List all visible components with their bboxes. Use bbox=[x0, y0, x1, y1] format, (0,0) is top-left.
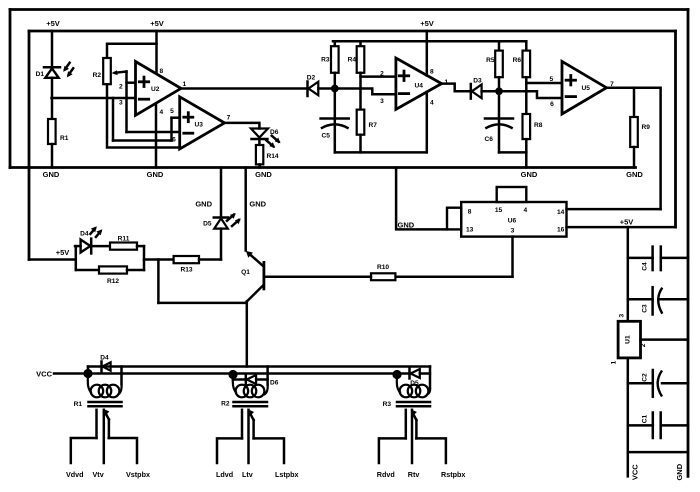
svg-text:R10: R10 bbox=[377, 264, 389, 271]
svg-text:2: 2 bbox=[640, 343, 647, 347]
wire left border down to ground rail bbox=[9, 10, 12, 168]
wire +5V bias feed bbox=[29, 258, 75, 261]
svg-text:R1: R1 bbox=[60, 135, 69, 142]
transformer R1 core bbox=[74, 401, 122, 408]
resistor R9 bbox=[630, 88, 650, 147]
wire cell rail drop to ground rail bbox=[525, 152, 528, 167]
wire cross link to U3 pin 5 riser bbox=[113, 139, 172, 142]
svg-text:4: 4 bbox=[159, 109, 163, 116]
svg-text:U3: U3 bbox=[195, 122, 204, 129]
wire R12 to right node bbox=[127, 269, 144, 272]
resistor R7 bbox=[357, 110, 378, 135]
svg-text:C4: C4 bbox=[642, 262, 649, 271]
wire R13 to D5 anode bbox=[199, 258, 221, 261]
wire ground rail drop to Q1 emitter bbox=[244, 168, 247, 251]
wire D2 anode to C5 node bbox=[318, 87, 335, 90]
svg-text:1: 1 bbox=[610, 360, 617, 364]
wire R2 bottom lead down and right under U2 bbox=[107, 84, 180, 147]
wire +5V to U4 pin 8 bbox=[426, 31, 429, 75]
wire U2 pin 4 to ground rail bbox=[155, 104, 158, 168]
junction node dot at R1 primary bbox=[83, 369, 92, 378]
svg-text:Rstpbx: Rstpbx bbox=[441, 470, 465, 479]
diode D5 flyback at R3 bbox=[397, 369, 430, 388]
junction node at D2 / R3 / C5 bbox=[331, 85, 339, 93]
svg-text:8: 8 bbox=[468, 208, 472, 215]
svg-text:Rtv: Rtv bbox=[408, 470, 420, 479]
svg-text:3: 3 bbox=[380, 98, 384, 105]
resistor R1 bbox=[48, 119, 69, 144]
transformer R3 primary coil bbox=[397, 379, 430, 398]
IC U1 bbox=[618, 321, 640, 358]
wire node to U5 pin 6 bbox=[499, 91, 562, 98]
op-amp U2 bbox=[136, 62, 182, 116]
svg-text:R5: R5 bbox=[486, 57, 495, 64]
wire +5V rail below U1 to VCC terminal bbox=[627, 358, 630, 477]
svg-text:Vstpbx: Vstpbx bbox=[126, 470, 150, 479]
svg-text:R14: R14 bbox=[267, 153, 279, 160]
resistor R14 bbox=[256, 145, 279, 164]
wire Q1 collector riser to transformer bus bbox=[246, 302, 249, 367]
transformer R3 secondary bbox=[379, 409, 446, 463]
svg-text:R1: R1 bbox=[74, 401, 83, 408]
wire inner box left edge continuing down to +5V bias feed bbox=[28, 31, 31, 260]
svg-text:6: 6 bbox=[172, 136, 176, 143]
wire R8 to cell rail bbox=[525, 139, 528, 152]
svg-text:Q1: Q1 bbox=[241, 269, 250, 276]
wire GND rail (inner box bottom edge) bbox=[10, 166, 636, 169]
wire U6 pin 16 to +5V riser bbox=[567, 226, 676, 229]
svg-text:6: 6 bbox=[550, 101, 554, 108]
svg-text:VCC: VCC bbox=[36, 370, 52, 379]
wire U2 pin 2 stub bbox=[127, 81, 136, 84]
wire D6 to R14 bbox=[258, 139, 261, 145]
wire ground rail drop to U6 left tab bbox=[396, 168, 447, 230]
svg-text:R11: R11 bbox=[118, 236, 130, 243]
capacitor C2 bbox=[628, 370, 688, 397]
svg-text:Ldvd: Ldvd bbox=[216, 470, 233, 479]
svg-text:D4: D4 bbox=[80, 231, 89, 238]
resistor R12 bbox=[99, 266, 127, 285]
svg-text:C6: C6 bbox=[485, 136, 494, 143]
svg-text:C1: C1 bbox=[642, 414, 649, 423]
wire inner box right edge / +5V riser to U6 pin 16 bbox=[674, 31, 677, 227]
resistor R3 bbox=[321, 41, 339, 73]
wire R3 to node bbox=[334, 73, 337, 89]
wire node to U2 pin 3 bbox=[52, 97, 136, 100]
wire divider tap to U5 pin 5 bbox=[526, 82, 562, 85]
wire +5V top rail of inner box bbox=[29, 30, 676, 33]
svg-text:GND: GND bbox=[195, 200, 212, 209]
svg-text:D3: D3 bbox=[473, 78, 482, 85]
svg-text:GND: GND bbox=[675, 463, 684, 480]
op-amp U3 bbox=[180, 97, 225, 149]
svg-text:R3: R3 bbox=[321, 57, 330, 64]
transformer R1 primary coil bbox=[88, 377, 122, 398]
svg-text:4: 4 bbox=[523, 207, 527, 214]
wire R7 to cell bottom rail bbox=[359, 135, 362, 153]
wire R2 primary right terminal bbox=[266, 367, 269, 385]
wire U3 output to D6 bbox=[225, 123, 260, 129]
svg-text:U6: U6 bbox=[508, 218, 517, 225]
capacitor C4 bbox=[628, 247, 688, 271]
wire collector bus bbox=[88, 365, 430, 368]
wire D5 anode down to R13 wire bbox=[220, 229, 223, 260]
svg-text:GND: GND bbox=[626, 170, 643, 179]
wire wiper vertical to U3 pin6 row bbox=[125, 72, 128, 133]
IC U6 bbox=[447, 187, 567, 237]
svg-text:R8: R8 bbox=[534, 122, 543, 129]
wire top border net bbox=[10, 8, 688, 11]
svg-text:U2: U2 bbox=[151, 86, 160, 93]
wire R6 to R8 divider bbox=[525, 77, 528, 114]
capacitor C5 bbox=[321, 89, 349, 153]
svg-text:8: 8 bbox=[159, 68, 163, 75]
wire U4 output to D3 bbox=[442, 84, 470, 92]
svg-text:C5: C5 bbox=[322, 133, 331, 140]
svg-text:R4: R4 bbox=[348, 57, 357, 64]
svg-text:R7: R7 bbox=[369, 122, 378, 129]
wire R9 to ground rail bbox=[633, 147, 636, 168]
diode D3 bbox=[471, 78, 482, 99]
svg-text:D1: D1 bbox=[36, 71, 45, 78]
junction node at D3 / R5 / C6 bbox=[495, 87, 503, 95]
wire +5V feed to D1 bbox=[51, 31, 54, 67]
wire U5 cell bottom rail bbox=[499, 151, 526, 154]
resistor R11 bbox=[110, 236, 137, 250]
wire right border / GND rail of cap bank bbox=[687, 10, 690, 477]
transistor Q1 bbox=[241, 251, 264, 302]
wire R14 to ground rail bbox=[258, 164, 261, 167]
svg-text:D5: D5 bbox=[203, 221, 212, 228]
svg-text:+5V: +5V bbox=[420, 19, 434, 28]
svg-text:R2: R2 bbox=[93, 72, 102, 79]
wire ground rail drop to D5 cathode bbox=[220, 168, 223, 218]
svg-text:U4: U4 bbox=[415, 83, 424, 90]
wire node to U4 pin 3 bbox=[335, 89, 396, 95]
resistor R5 bbox=[486, 41, 503, 77]
svg-text:GND: GND bbox=[521, 170, 538, 179]
svg-text:GND: GND bbox=[398, 221, 415, 230]
transformer R1 secondary bbox=[71, 409, 137, 463]
wire bottom link of cap bank bbox=[628, 451, 688, 454]
svg-text:13: 13 bbox=[466, 226, 474, 233]
svg-text:2: 2 bbox=[119, 83, 123, 90]
junction node dot at R3 primary bbox=[392, 370, 401, 379]
resistor R6 bbox=[513, 41, 531, 77]
svg-text:R9: R9 bbox=[642, 124, 651, 131]
capacitor C1 bbox=[628, 413, 688, 439]
wire U1 pin 2 to GND rail bbox=[641, 338, 689, 341]
svg-text:8: 8 bbox=[430, 69, 434, 76]
svg-text:5: 5 bbox=[170, 108, 174, 115]
svg-text:2: 2 bbox=[380, 70, 384, 77]
capacitor C6 bbox=[485, 91, 514, 152]
svg-text:R13: R13 bbox=[180, 267, 192, 274]
wire pin2 node to U3 pin 6 bbox=[127, 131, 180, 134]
svg-text:Lstpbx: Lstpbx bbox=[275, 470, 299, 479]
svg-text:7: 7 bbox=[227, 115, 231, 122]
svg-text:15: 15 bbox=[495, 207, 503, 214]
svg-text:4: 4 bbox=[430, 99, 434, 106]
resistor R8 bbox=[523, 114, 543, 139]
resistor R13 bbox=[174, 256, 199, 274]
diode D2 bbox=[307, 75, 319, 97]
wire left node of D4/R12 block bbox=[75, 246, 78, 270]
svg-text:Ltv: Ltv bbox=[242, 470, 253, 479]
svg-text:U1: U1 bbox=[624, 335, 631, 344]
transformer R3 core bbox=[383, 401, 430, 408]
svg-text:+5V: +5V bbox=[56, 248, 70, 257]
wire +5V rail of U4/U5 cells bbox=[333, 40, 526, 43]
wire VCC bus bbox=[54, 372, 397, 375]
wire R1 to ground rail bbox=[51, 144, 54, 168]
transformer R2 primary coil bbox=[233, 378, 268, 398]
wire U4 pin 4 to cell bottom rail bbox=[426, 92, 429, 152]
wire U5 output to U6 pin 14 riser bbox=[607, 88, 661, 209]
svg-text:C3: C3 bbox=[642, 304, 649, 313]
wire +5V rail down through cap bank bbox=[627, 227, 630, 321]
resistor R4 bbox=[348, 41, 365, 73]
wire D1 cathode to R1 / pin3 node bbox=[51, 78, 54, 119]
wire block to R13 bbox=[144, 258, 174, 261]
wire R1 primary right terminal bbox=[120, 367, 123, 385]
svg-text:GND: GND bbox=[43, 170, 60, 179]
capacitor C3 bbox=[628, 287, 688, 314]
wire collector loop horizontal bbox=[158, 302, 246, 305]
wire D4 to R11 bbox=[91, 245, 110, 248]
LED D6 bbox=[251, 129, 281, 149]
svg-text:GND: GND bbox=[147, 170, 164, 179]
op-amp U5 bbox=[562, 61, 607, 114]
svg-text:GND: GND bbox=[255, 170, 272, 179]
wire junction drop toward Q1 collector loop bbox=[157, 260, 160, 303]
svg-text:5: 5 bbox=[549, 76, 553, 83]
svg-text:3: 3 bbox=[511, 227, 515, 234]
photodiode D1 bbox=[36, 63, 74, 78]
svg-text:1: 1 bbox=[182, 81, 186, 88]
svg-text:R12: R12 bbox=[107, 278, 119, 285]
transformer R2 core bbox=[221, 401, 267, 408]
svg-text:Vdvd: Vdvd bbox=[66, 470, 84, 479]
svg-text:+5V: +5V bbox=[620, 218, 634, 227]
svg-text:R3: R3 bbox=[383, 401, 392, 408]
svg-text:GND: GND bbox=[249, 200, 266, 209]
op-amp U4 bbox=[396, 58, 442, 109]
wire Q1 base to R10 bbox=[264, 276, 371, 279]
wire U6 pin 3 drop to R10 bbox=[511, 237, 514, 277]
svg-text:D6: D6 bbox=[270, 129, 279, 136]
wire R3 primary right terminal bbox=[429, 367, 432, 389]
svg-text:D2: D2 bbox=[307, 75, 316, 82]
svg-text:16: 16 bbox=[557, 226, 565, 233]
svg-text:+5V: +5V bbox=[150, 19, 164, 28]
svg-text:3: 3 bbox=[618, 314, 625, 318]
svg-text:3: 3 bbox=[119, 100, 123, 107]
wire right node of block bbox=[143, 246, 146, 270]
svg-text:R6: R6 bbox=[513, 57, 522, 64]
svg-text:D6: D6 bbox=[270, 380, 279, 387]
wire R10 to U6 pin 3 bbox=[395, 276, 512, 279]
wire divider tap to U4 pin 2 bbox=[361, 75, 396, 78]
wire pin3 node drop bbox=[112, 98, 115, 141]
wire D3 anode to C6 node bbox=[482, 90, 499, 93]
svg-text:14: 14 bbox=[557, 209, 565, 216]
wire R5 to node bbox=[498, 77, 501, 91]
resistor R10 bbox=[371, 264, 395, 280]
wire U2 output to D2 bbox=[181, 87, 307, 90]
wire U3 pin 5 riser bbox=[170, 118, 173, 141]
potentiometer R2 bbox=[93, 58, 127, 84]
svg-text:Vtv: Vtv bbox=[93, 470, 104, 479]
LED D5 bbox=[203, 213, 241, 229]
wire lower branch to R12 bbox=[76, 269, 99, 272]
svg-text:Rdvd: Rdvd bbox=[377, 470, 395, 479]
wire U6 pin 14 from riser bbox=[567, 208, 661, 211]
diode D4 flyback at R1 bbox=[100, 355, 110, 372]
wire R11 to right node bbox=[137, 245, 144, 248]
svg-text:R2: R2 bbox=[221, 401, 230, 408]
svg-text:U5: U5 bbox=[582, 85, 591, 92]
wire R4 to R7 divider bbox=[359, 73, 362, 110]
svg-text:VCC: VCC bbox=[631, 464, 640, 480]
junction node dot at R2 primary bbox=[228, 370, 237, 379]
LED D4 bbox=[75, 226, 102, 253]
svg-text:C2: C2 bbox=[642, 373, 649, 382]
wire R2 top feed from +5V riser bbox=[107, 44, 157, 58]
wire U3 pin 5 stub bbox=[172, 116, 180, 119]
svg-text:D4: D4 bbox=[100, 355, 109, 362]
wire VCC dot1 stub to D4 bus bbox=[87, 367, 90, 374]
svg-text:+5V: +5V bbox=[46, 19, 60, 28]
diode D6 flyback at R2 bbox=[233, 374, 279, 387]
transformer R2 secondary bbox=[217, 409, 284, 463]
wire +5V riser to U2 pin 8 bbox=[155, 31, 158, 74]
wire U4 cell bottom rail bbox=[335, 151, 427, 154]
